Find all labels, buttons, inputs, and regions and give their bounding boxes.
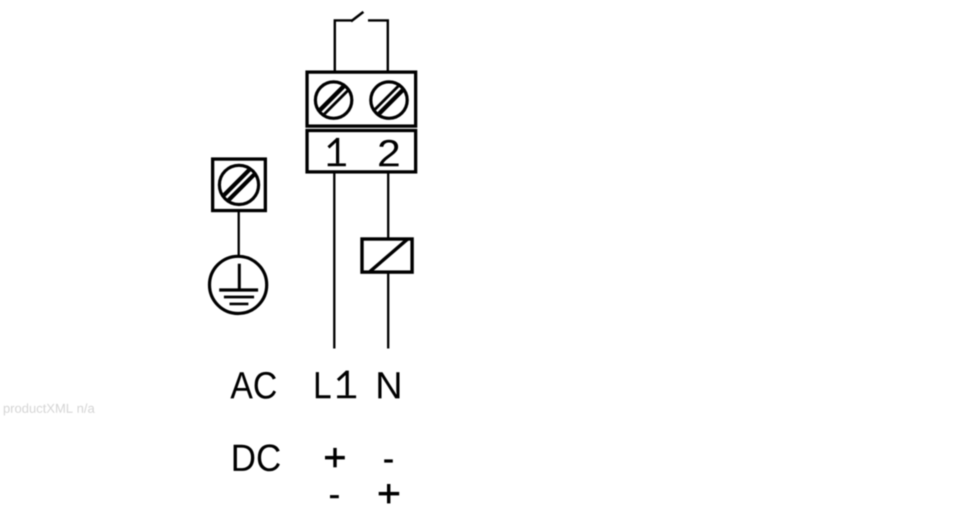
terminal block upper box — [307, 72, 416, 126]
earth stem — [238, 264, 241, 290]
label DC — [234, 444, 280, 471]
DC reversed minus (L1 column) — [330, 495, 339, 498]
DC minus (N column) — [384, 459, 393, 462]
screw terminal 1 slot — [311, 79, 359, 119]
protective earth circle — [210, 256, 267, 313]
terminal block lower box — [307, 131, 416, 172]
label N — [378, 372, 399, 398]
switch S1 right lead wire — [368, 20, 388, 71]
switch S1 left lead wire — [335, 20, 352, 71]
wire N lower segment (load to label) — [387, 273, 389, 349]
wire L1 (below terminal 1) — [333, 172, 335, 349]
PE screw terminal box — [213, 159, 266, 211]
switch S1 blade — [351, 12, 363, 22]
screw terminal 2 slot — [367, 78, 412, 122]
PE screw circle — [219, 165, 258, 204]
watermark productXML n/a — [4, 403, 95, 415]
earth bar 2 — [224, 296, 254, 299]
screw terminal 2 circle — [371, 82, 407, 118]
wire N upper segment (terminal 2 to load) — [387, 172, 389, 238]
label L1: 1 — [337, 371, 356, 399]
wire PE (square to earth symbol) — [238, 212, 240, 256]
pin number 1 — [328, 138, 346, 166]
DC plus (L1 column) — [325, 448, 345, 467]
screw terminal 1 circle — [315, 82, 351, 118]
earth bar 1 — [219, 288, 258, 291]
pin number 2 — [379, 140, 398, 167]
load symbol diagonal — [369, 239, 408, 272]
label L1: L — [316, 372, 331, 398]
load/appliance symbol on N wire — [362, 239, 412, 272]
earth bar 3 — [230, 303, 249, 306]
DC reversed plus (N column) — [379, 484, 400, 503]
PE screw slot — [214, 165, 259, 210]
label AC — [230, 372, 276, 399]
